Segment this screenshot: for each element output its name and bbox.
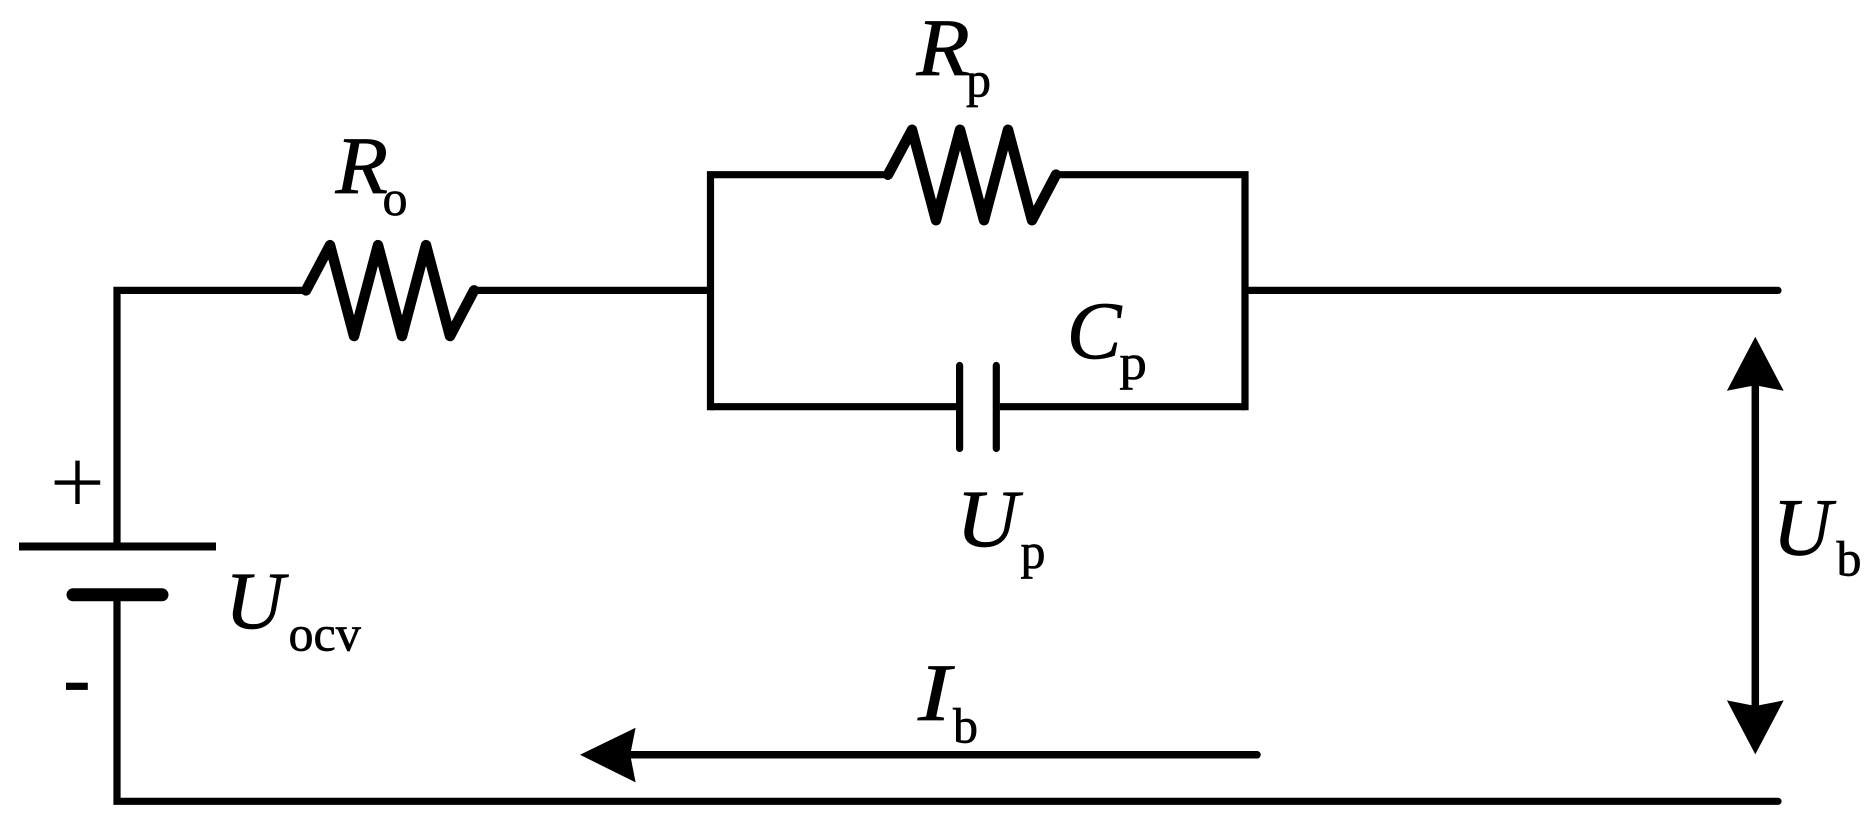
label U_b (1773, 481, 1862, 586)
wire: R_o to parallel RC box (474, 287, 711, 294)
label R_p (916, 3, 991, 107)
svg-text:o: o (383, 170, 408, 226)
svg-text:b: b (1837, 531, 1862, 587)
svg-text:ocv: ocv (289, 606, 361, 662)
U_b arrow: top head (1727, 337, 1784, 391)
svg-text:R: R (916, 3, 970, 93)
svg-text:R: R (335, 121, 389, 212)
capacitor C_p : right plate (993, 366, 1000, 449)
wire: left vertical from top node down to battery positive plate, plus top wire to R_o (117, 290, 306, 546)
label C_p (1067, 285, 1147, 391)
U_b voltage double-headed arrow : shaft (1752, 380, 1760, 711)
RC parallel box: left edge and top-left segment (711, 175, 889, 407)
svg-text:U: U (956, 474, 1024, 565)
svg-text:U: U (225, 555, 289, 646)
wire: left vertical from battery negative plate down + bottom return wire (117, 595, 1778, 802)
battery U_ocv : short thick negative plate (73, 588, 162, 601)
label U_ocv (225, 555, 361, 662)
svg-text:U: U (1773, 481, 1837, 572)
U_b arrow: bottom head (1727, 700, 1784, 754)
minus sign (-) at battery negative terminal (66, 683, 88, 690)
box: top-right segment and right edge (1056, 175, 1245, 407)
svg-text:C: C (1067, 285, 1123, 376)
svg-text:p: p (1119, 335, 1147, 390)
resistor R_p zigzag on top edge (888, 130, 1056, 220)
label U_p (956, 474, 1045, 579)
svg-text:p: p (1021, 523, 1046, 579)
svg-text:b: b (953, 698, 978, 754)
label I_b (917, 647, 978, 754)
box: bottom edge right of capacitor (1000, 403, 1245, 410)
I_b arrow head pointing left (580, 728, 636, 783)
battery U_ocv : long positive plate (19, 543, 216, 551)
wire: box to right edge of circuit (1245, 287, 1778, 294)
svg-text:I: I (917, 647, 955, 738)
box: bottom edge left of capacitor (711, 403, 957, 410)
plus sign (+) at battery positive terminal (55, 461, 101, 504)
svg-text:p: p (966, 52, 991, 108)
capacitor C_p : left plate (956, 366, 963, 449)
label R_o (335, 121, 408, 226)
resistor R_o zigzag (306, 245, 474, 336)
I_b current arrow : shaft (628, 751, 1257, 759)
